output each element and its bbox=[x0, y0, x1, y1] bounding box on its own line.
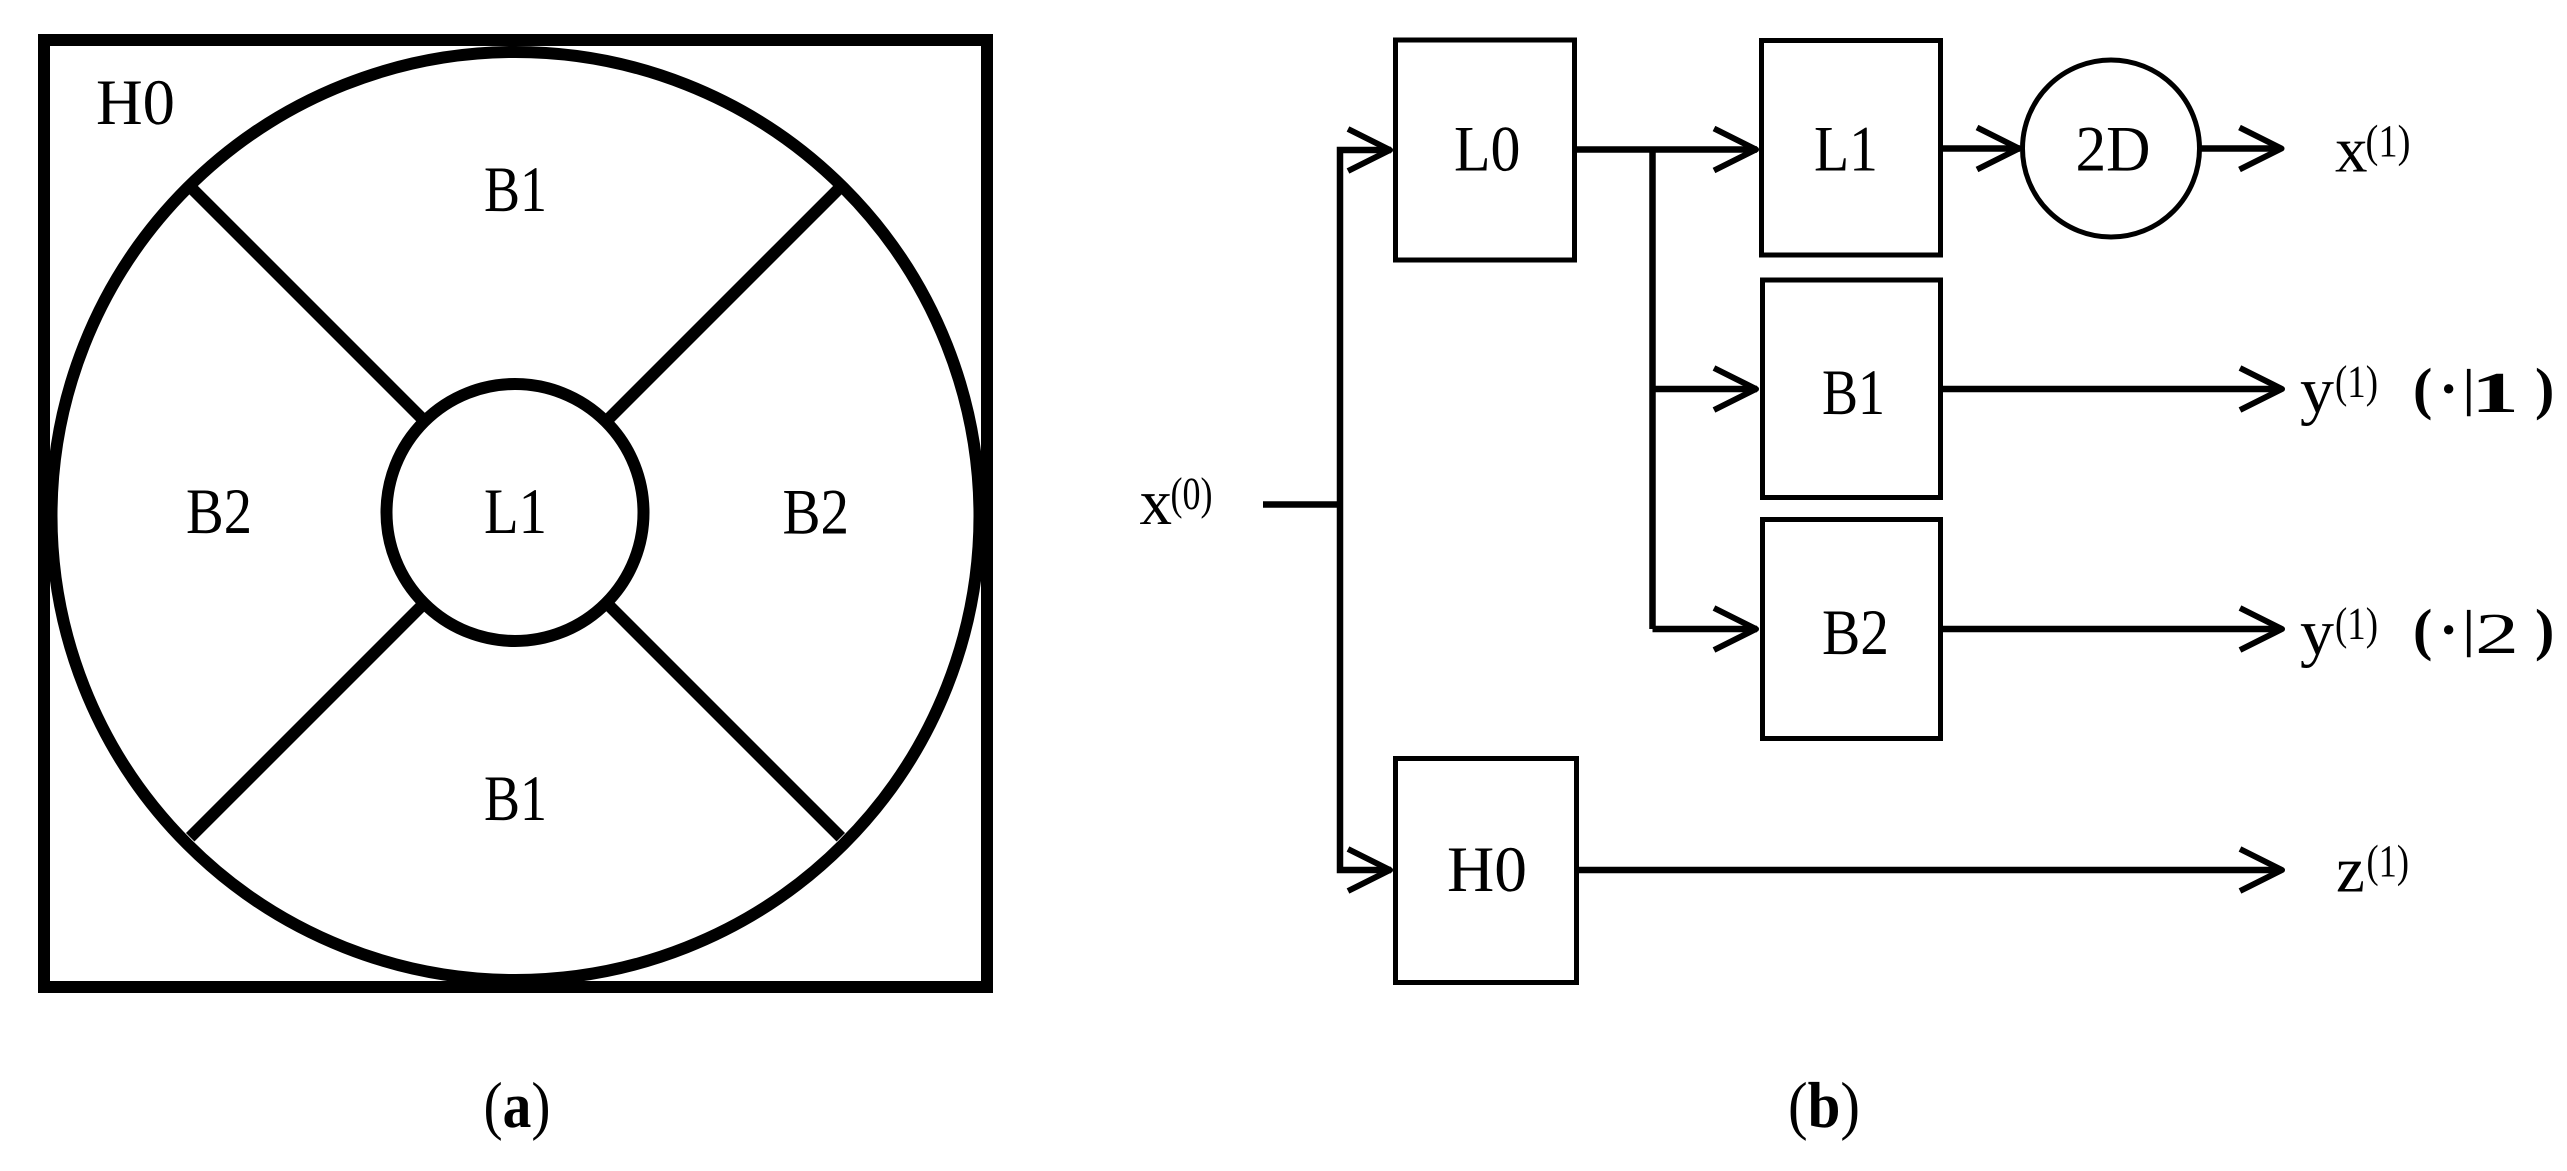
svg-text:B2: B2 bbox=[186, 476, 252, 548]
svg-text:(: ( bbox=[2413, 597, 2432, 662]
arrowhead output z(1) bbox=[2240, 849, 2282, 891]
svg-text:(1): (1) bbox=[2367, 836, 2410, 887]
svg-text:H0: H0 bbox=[96, 67, 175, 139]
svg-text:L1: L1 bbox=[484, 476, 547, 548]
svg-text:B1: B1 bbox=[484, 154, 547, 226]
arrowhead output y(1)(.|2) bbox=[2240, 608, 2282, 650]
box B1 bbox=[1763, 280, 1941, 498]
svg-text:L0: L0 bbox=[1454, 114, 1521, 186]
wire B2 to y(1)(.|2) output bbox=[1941, 626, 2283, 633]
diagonal sector divider bottom-right bbox=[606, 603, 840, 837]
wire branch to B2 bbox=[1653, 626, 1758, 633]
outer square H0 region border bbox=[44, 40, 987, 987]
svg-text:2: 2 bbox=[2475, 601, 2519, 666]
svg-text:·: · bbox=[2439, 356, 2458, 421]
diagonal sector divider top-right bbox=[606, 187, 840, 421]
svg-text:L1: L1 bbox=[1814, 114, 1878, 186]
box H0 bbox=[1396, 759, 1577, 983]
svg-text:(: ( bbox=[2413, 356, 2432, 421]
wire B1 to y(1)(.|1) output bbox=[1941, 386, 2283, 393]
arrowhead output y(1)(.|1) bbox=[2240, 368, 2282, 410]
outer circle bbox=[52, 52, 980, 980]
circle 2D downsampler bbox=[2023, 60, 2200, 237]
arrowhead into H0 bbox=[1348, 849, 1390, 891]
svg-text:x: x bbox=[2335, 115, 2368, 187]
wire x(0) input stub bbox=[1263, 501, 1343, 508]
svg-text:B2: B2 bbox=[1822, 597, 1889, 669]
svg-text:(0): (0) bbox=[1171, 468, 1213, 519]
wire 2D to x(1) output bbox=[2200, 145, 2282, 152]
arrowhead into 2D bbox=[1977, 128, 2019, 170]
svg-text:(1): (1) bbox=[2335, 598, 2378, 649]
wire H0 to z(1) output bbox=[1577, 867, 2283, 874]
arrowhead into L0 bbox=[1348, 129, 1390, 171]
svg-text:): ) bbox=[2535, 356, 2554, 421]
svg-text:x: x bbox=[1140, 467, 1173, 539]
svg-text:z: z bbox=[2336, 835, 2365, 907]
arrowhead output x(1) bbox=[2240, 128, 2282, 170]
box L1 bbox=[1762, 41, 1941, 256]
arrowhead into L1 bbox=[1714, 129, 1756, 171]
wire input trunk with elbows to L0 and H0 bbox=[1340, 150, 1391, 870]
diagonal sector divider top-left bbox=[190, 187, 424, 421]
svg-text:y: y bbox=[2300, 597, 2335, 669]
wire L1 to 2D bbox=[1943, 145, 2020, 152]
svg-text:(b): (b) bbox=[1788, 1070, 1860, 1142]
box L0 bbox=[1396, 40, 1575, 260]
svg-text:|: | bbox=[2463, 601, 2474, 658]
svg-text:B1: B1 bbox=[484, 763, 547, 835]
svg-text:(1): (1) bbox=[2366, 116, 2411, 167]
svg-text:(a): (a) bbox=[484, 1070, 551, 1142]
svg-text:1: 1 bbox=[2471, 360, 2519, 425]
box B2 bbox=[1763, 520, 1941, 739]
svg-text:y: y bbox=[2300, 355, 2335, 427]
wire branch to B1 bbox=[1653, 386, 1758, 393]
inner circle L1 region bbox=[387, 384, 644, 641]
svg-text:): ) bbox=[2535, 597, 2554, 662]
svg-text:2D: 2D bbox=[2076, 114, 2151, 186]
svg-text:B1: B1 bbox=[1822, 357, 1885, 429]
svg-text:B2: B2 bbox=[783, 477, 850, 549]
wire branch vertical after L0 bbox=[1649, 150, 1656, 629]
arrowhead into B2 bbox=[1714, 608, 1756, 650]
svg-text:·: · bbox=[2439, 597, 2458, 662]
diagonal sector divider bottom-left bbox=[190, 603, 424, 837]
arrowhead into B1 bbox=[1714, 368, 1756, 410]
wire L0 to L1 bbox=[1577, 146, 1757, 153]
svg-text:(1): (1) bbox=[2335, 356, 2378, 407]
svg-text:H0: H0 bbox=[1447, 834, 1527, 906]
